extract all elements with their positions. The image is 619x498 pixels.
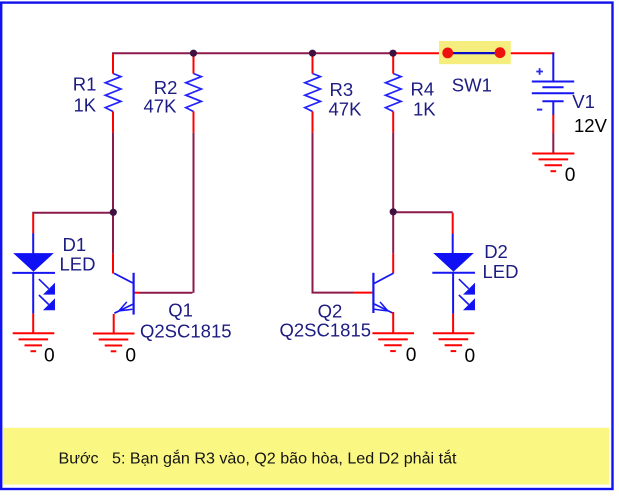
svg-text:R1: R1 <box>73 74 97 95</box>
svg-text:Q2SC1815: Q2SC1815 <box>280 319 372 340</box>
wire to Q1 base red <box>135 292 139 294</box>
wire to Q2 collector red <box>392 254 394 274</box>
wire R4 top stub <box>392 53 394 73</box>
switch SW1 highlight <box>439 41 511 64</box>
svg-text:LED: LED <box>483 261 519 282</box>
resistor R2 <box>186 74 202 112</box>
svg-text:Q2SC1815: Q2SC1815 <box>140 320 232 341</box>
wire rail red to switch <box>393 52 449 54</box>
ground D2 <box>433 333 475 351</box>
svg-text:12V: 12V <box>574 115 608 136</box>
wire node B to Q2 collector maroon <box>392 214 394 254</box>
junction rail R3 <box>309 50 316 57</box>
wire Q1 emitter to ground red <box>113 314 115 334</box>
wire R4 bottom red stub <box>392 111 394 132</box>
wire node B down to D2 red <box>452 213 454 234</box>
wire R1 top stub <box>112 54 114 74</box>
svg-text:LED: LED <box>60 254 96 275</box>
svg-text:0: 0 <box>44 345 55 366</box>
junction rail R4 <box>389 50 396 57</box>
wire D2 to ground red <box>452 314 454 334</box>
svg-text:Q2: Q2 <box>318 300 343 321</box>
svg-text:0: 0 <box>406 345 417 366</box>
svg-text:R3: R3 <box>330 79 354 100</box>
battery minus sign <box>537 109 542 111</box>
wire top rail maroon <box>112 52 393 54</box>
transistor Q2 <box>373 273 393 313</box>
wire R1 bottom red stub <box>112 111 114 132</box>
wire R1 column maroon <box>112 133 114 254</box>
wire R2 bottom red stub <box>193 111 195 132</box>
svg-text:V1: V1 <box>572 91 595 112</box>
battery plus sign <box>536 68 543 75</box>
wire to Q2 base red <box>353 292 372 294</box>
wire node B horizontal maroon <box>393 211 453 213</box>
LED D1 <box>12 233 55 313</box>
wire rail red switch to battery <box>500 52 555 54</box>
ground D1 <box>13 333 55 351</box>
svg-text:0: 0 <box>465 346 476 367</box>
LED D1 arrows <box>39 279 54 309</box>
ground V1 <box>532 154 574 172</box>
battery V1 <box>532 52 574 115</box>
junction rail R2 <box>190 50 197 57</box>
wire R3 bottom red stub <box>312 111 314 132</box>
wire battery to ground maroon <box>552 133 554 153</box>
ground Q2 <box>372 333 414 351</box>
svg-text:47K: 47K <box>144 95 178 116</box>
wire node A horizontal maroon <box>33 212 112 214</box>
svg-text:D2: D2 <box>484 241 508 262</box>
svg-text:0: 0 <box>125 345 136 366</box>
svg-text:1K: 1K <box>74 94 97 115</box>
caption banner <box>3 428 609 485</box>
LED D2 arrows <box>459 279 474 309</box>
svg-text:1K: 1K <box>413 99 436 120</box>
junction node A <box>110 209 117 216</box>
wire R4 column maroon <box>392 133 394 209</box>
transistor Q1 <box>114 273 134 315</box>
wire R3 top stub <box>312 53 314 73</box>
svg-text:Bước 5: Bạn gắn R3 vào, Q2 b: Bước 5: Bạn gắn R3 vào, Q2 bão hòa, Led … <box>59 448 458 467</box>
svg-text:Q1: Q1 <box>168 300 193 321</box>
wire R2 column maroon <box>139 133 194 293</box>
wire to Q1 collector red <box>112 254 114 274</box>
svg-text:SW1: SW1 <box>452 75 492 96</box>
wire R2 top stub <box>193 53 195 73</box>
resistor R3 <box>305 74 321 112</box>
wire Q2 emitter to ground red <box>392 312 394 333</box>
resistor R4 <box>386 74 402 112</box>
ground Q1 <box>93 334 135 352</box>
svg-text:D1: D1 <box>63 234 87 255</box>
junction node B <box>390 208 397 215</box>
svg-text:R4: R4 <box>411 79 435 100</box>
switch SW1 <box>442 47 505 58</box>
LED D2 <box>432 234 475 314</box>
wire node A down to D1 red <box>32 214 34 234</box>
svg-text:0: 0 <box>565 165 576 186</box>
svg-text:47K: 47K <box>329 99 363 120</box>
wire D1 to ground red <box>32 314 34 334</box>
wire battery to ground red <box>552 115 554 134</box>
resistor R1 <box>105 74 121 112</box>
wire R3 column maroon <box>312 133 354 293</box>
